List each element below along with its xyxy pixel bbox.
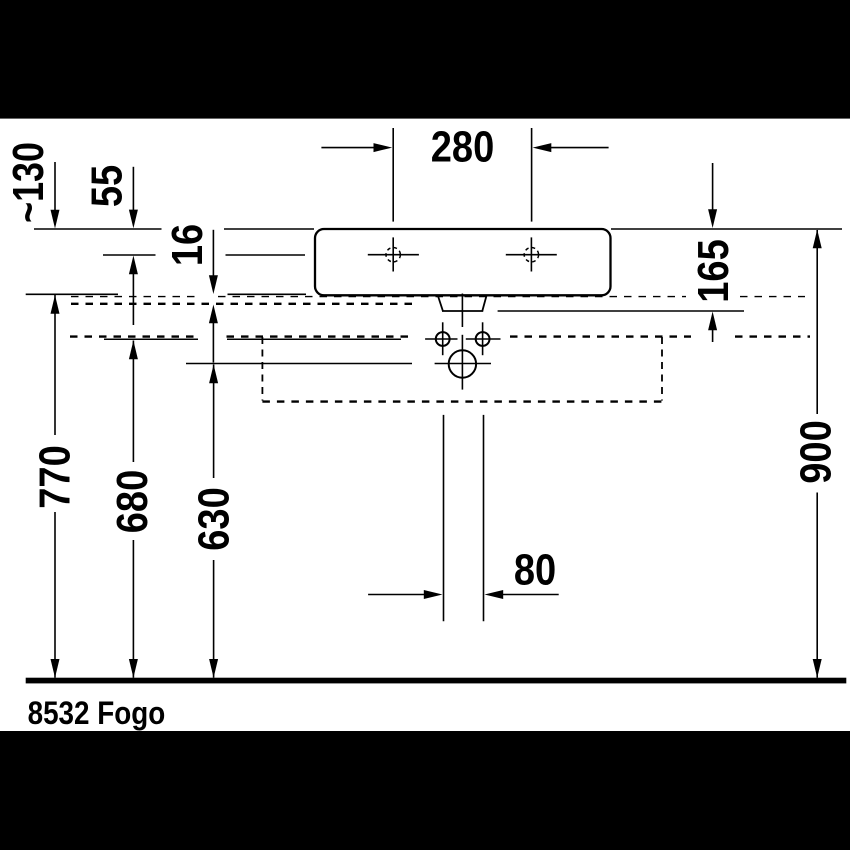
- dimension 630 line lower: [213, 560, 215, 678]
- dimension 80 right extension line: [483, 415, 485, 621]
- rim extension line right segment: [611, 228, 842, 230]
- dimension 55 arrowhead down: [129, 210, 138, 229]
- drain trapezoid bottom: [442, 310, 483, 312]
- dimension 770 arrowhead down at floor: [51, 659, 60, 678]
- rim extension line left segment a: [34, 228, 162, 230]
- dimension 55 line: [132, 167, 134, 212]
- console dashed rectangle bottom edge: [262, 400, 662, 402]
- dimension 680 line lower: [132, 540, 134, 678]
- svg-text:680: 680: [107, 470, 156, 533]
- dimension 770 line lower: [54, 512, 56, 678]
- dimension 55 arrowhead up: [129, 256, 138, 275]
- fixing hole left cross vertical: [442, 322, 444, 355]
- faucet hole 1 dashed circle: [386, 248, 400, 262]
- dimension 80 right arrow line: [503, 594, 559, 596]
- dimension 900 arrowhead up: [813, 230, 822, 249]
- wall line thin dashed segment c: [740, 296, 805, 298]
- fixing hole right cross vertical: [482, 322, 484, 355]
- dimension 16 lower tail: [212, 321, 214, 363]
- svg-text:~130: ~130: [4, 142, 53, 223]
- faucet hole 1 cross vertical: [392, 237, 394, 271]
- bottom letterbox bar: [0, 731, 850, 850]
- fixing hole right circle: [476, 332, 490, 346]
- faucet hole centre extension line left stub: [103, 254, 156, 256]
- svg-text:55: 55: [82, 165, 131, 207]
- dimension 80 left arrow line: [368, 594, 426, 596]
- dimension 900 arrowhead down at floor: [813, 659, 822, 678]
- console dashed rectangle right edge: [661, 337, 663, 401]
- dimension 80 left extension line: [443, 415, 445, 621]
- drain trapezoid left side: [438, 296, 443, 311]
- wall line thin dashed segment b: [218, 296, 686, 298]
- rim extension line left segment b: [224, 228, 314, 230]
- faucet hole centre extension line mid segment: [226, 254, 306, 256]
- dimension 900 line upper: [816, 230, 818, 414]
- dimension 280 left arrow line: [321, 147, 375, 149]
- svg-text:770: 770: [30, 445, 79, 508]
- dimension 80 left arrowhead: [424, 590, 443, 599]
- dimension 770 arrowhead up: [51, 295, 60, 314]
- dimension 280 right arrowhead: [533, 143, 552, 152]
- console dashed rectangle left edge: [261, 337, 263, 401]
- drain center axis line lower: [461, 335, 463, 390]
- faucet hole 2 cross horizontal: [506, 254, 557, 256]
- dimension 16 arrowhead down: [209, 275, 218, 294]
- 770 extension line: [26, 293, 118, 295]
- floor line (ground): [26, 678, 847, 684]
- dimension 900 line lower: [816, 493, 818, 678]
- dimension 770 line upper: [54, 295, 56, 435]
- console dashed line segment b: [227, 335, 415, 337]
- dimension 280 right extension line: [531, 128, 533, 222]
- dimension 165 arrowhead down: [708, 209, 717, 228]
- basin outline (rounded rectangle body): [315, 229, 611, 295]
- 630 extension line segment a: [186, 363, 412, 365]
- dimension 680 arrowhead up: [129, 341, 138, 360]
- drain outlet circle: [449, 350, 476, 377]
- dimension 16 arrowhead up: [209, 305, 218, 324]
- top letterbox bar: [0, 0, 850, 119]
- dimension 165 upper tail: [712, 163, 714, 212]
- dimension 80 right arrowhead: [485, 590, 504, 599]
- dimension 165 arrowhead up: [708, 312, 717, 331]
- mounting level thick dashed line: [71, 303, 417, 305]
- 680 extension line segment a: [104, 338, 198, 340]
- drain center axis line upper: [461, 294, 463, 328]
- dimension 630 arrowhead up: [209, 365, 218, 384]
- 680 extension line segment b: [227, 338, 401, 340]
- dimension 16 upper tail: [212, 230, 214, 278]
- basin bottom extension line: [228, 293, 307, 295]
- fixing hole left circle: [436, 332, 450, 346]
- fixing hole right cross horizontal: [466, 338, 501, 340]
- dimension 55 lower tail: [132, 272, 134, 325]
- faucet hole 2 dashed circle: [524, 248, 538, 262]
- fixing hole left cross horizontal: [425, 338, 457, 340]
- dimension 630 arrowhead down at floor: [209, 659, 218, 678]
- console dashed line segment d: [735, 335, 810, 337]
- dimension 680 arrowhead down at floor: [129, 659, 138, 678]
- svg-text:630: 630: [189, 487, 238, 550]
- dimension ~130 arrowhead: [51, 210, 60, 229]
- 630 extension line segment b (drain circle axis): [435, 363, 491, 365]
- wall line thin dashed segment a: [71, 296, 199, 298]
- dimension ~130 line: [54, 162, 56, 212]
- svg-text:280: 280: [431, 122, 494, 171]
- console dashed line segment c: [510, 335, 691, 337]
- svg-text:8532 Fogo: 8532 Fogo: [28, 696, 166, 731]
- drain trapezoid right side: [482, 296, 486, 311]
- faucet hole 1 cross horizontal: [368, 254, 419, 256]
- dimension 280 left extension line: [392, 128, 394, 222]
- svg-text:80: 80: [514, 545, 556, 594]
- 165 extension line (siphon cover bottom): [498, 310, 744, 312]
- svg-text:900: 900: [791, 420, 840, 483]
- svg-text:165: 165: [688, 239, 737, 302]
- dimension 165 lower tail: [712, 328, 714, 342]
- svg-text:16: 16: [162, 224, 211, 266]
- dimension 680 line upper: [132, 341, 134, 463]
- console dashed line segment a: [70, 335, 198, 337]
- faucet hole 2 cross vertical: [530, 237, 532, 271]
- dimension 280 right arrow line: [550, 147, 609, 149]
- dimension 630 line upper: [213, 365, 215, 479]
- dimension 280 left arrowhead: [374, 143, 393, 152]
